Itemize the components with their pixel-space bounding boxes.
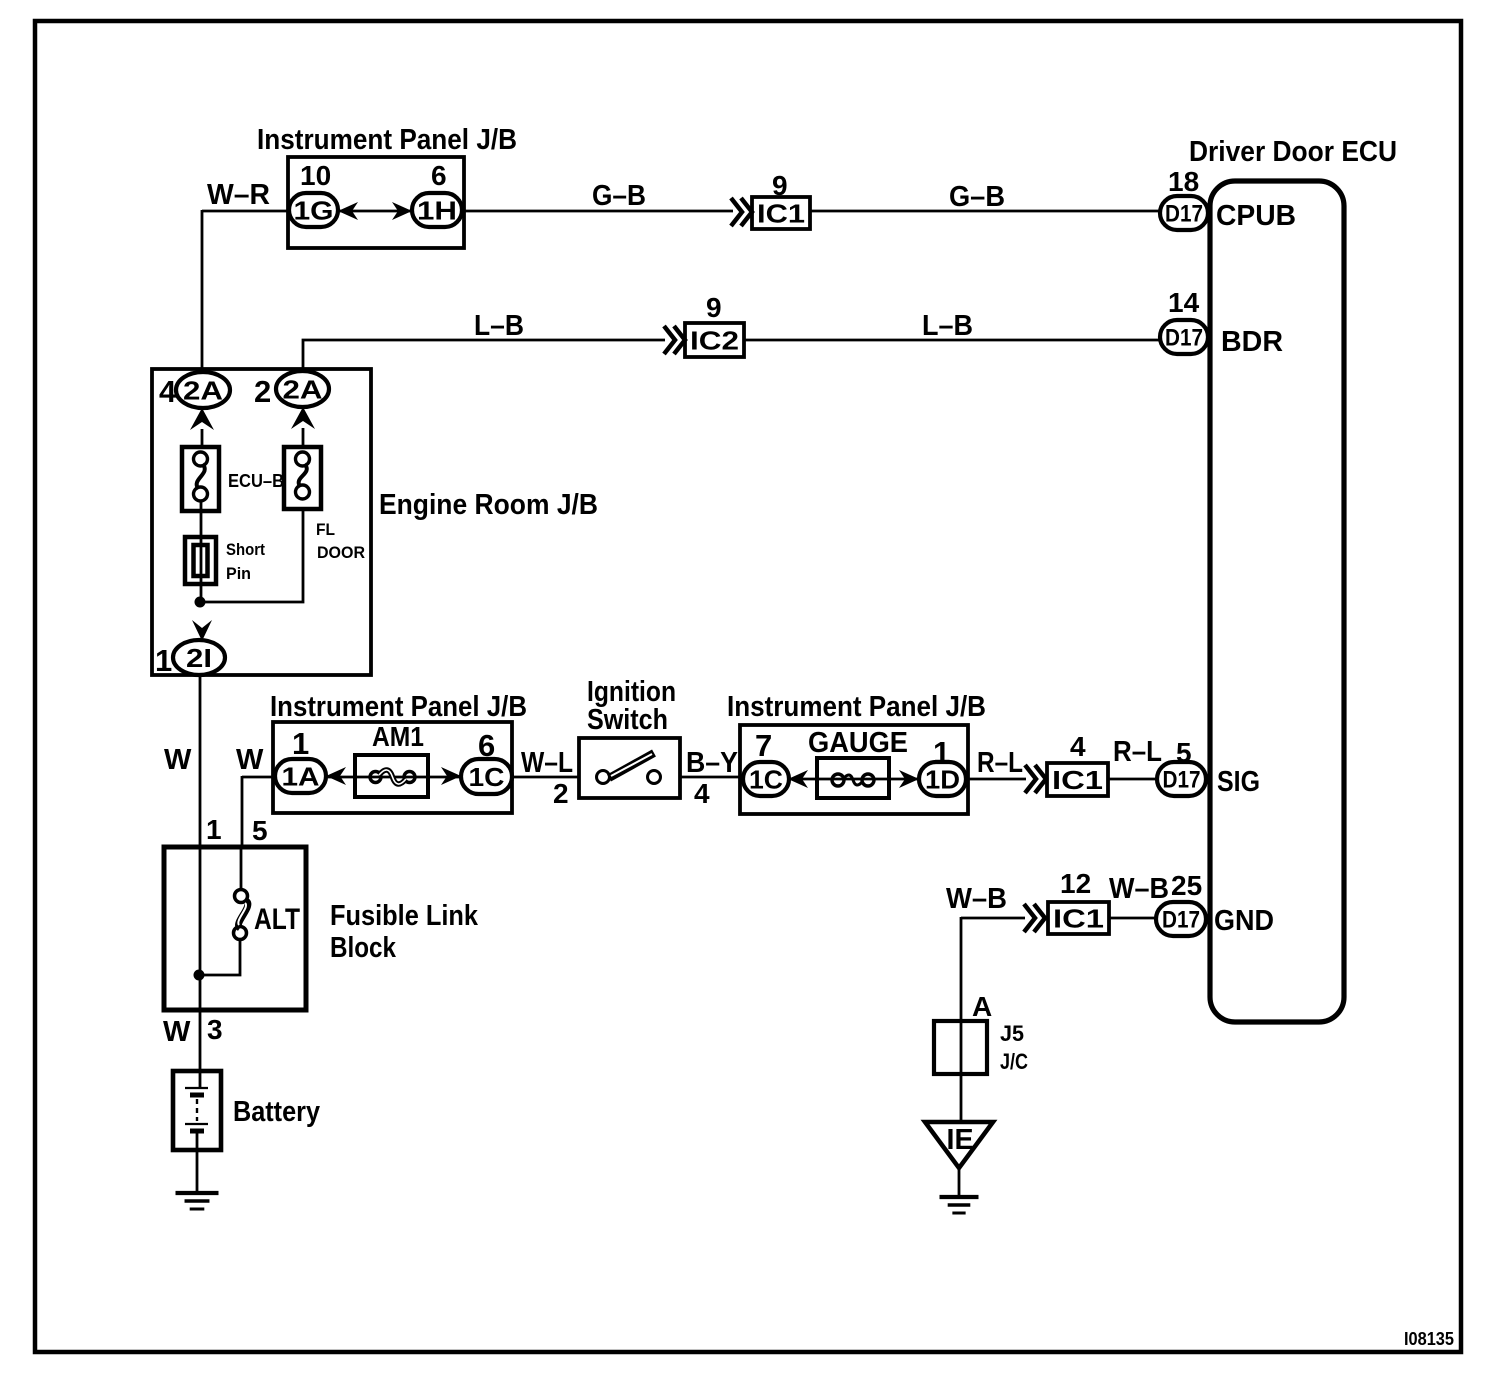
svg-text:10: 10 — [300, 160, 331, 191]
svg-text:18: 18 — [1168, 166, 1199, 197]
svg-text:DOOR: DOOR — [317, 543, 365, 562]
svg-text:G–B: G–B — [592, 180, 646, 212]
svg-text:D17: D17 — [1165, 201, 1203, 228]
svg-text:IC2: IC2 — [690, 326, 739, 356]
svg-text:1C: 1C — [469, 762, 505, 792]
svg-text:D17: D17 — [1162, 907, 1200, 934]
svg-text:GND: GND — [1214, 905, 1274, 937]
svg-text:L–B: L–B — [474, 310, 524, 342]
svg-text:9: 9 — [772, 170, 788, 201]
svg-text:25: 25 — [1171, 870, 1202, 901]
svg-text:I08135: I08135 — [1404, 1329, 1454, 1349]
svg-text:CPUB: CPUB — [1216, 200, 1296, 232]
svg-text:D17: D17 — [1163, 767, 1201, 794]
svg-text:Short: Short — [226, 540, 265, 559]
svg-text:A: A — [972, 991, 992, 1022]
svg-text:14: 14 — [1168, 287, 1200, 318]
svg-text:J/C: J/C — [1000, 1049, 1028, 1074]
svg-text:1: 1 — [206, 814, 222, 845]
svg-text:W: W — [163, 1016, 191, 1048]
svg-text:1G: 1G — [294, 195, 334, 225]
svg-text:W: W — [164, 744, 192, 776]
svg-text:AM1: AM1 — [372, 721, 424, 752]
svg-text:Fusible Link: Fusible Link — [330, 900, 479, 932]
svg-text:W: W — [236, 744, 264, 776]
svg-text:5: 5 — [252, 815, 268, 846]
svg-text:Engine Room J/B: Engine Room J/B — [379, 489, 598, 521]
svg-text:Driver Door ECU: Driver Door ECU — [1189, 136, 1397, 168]
svg-text:B–Y: B–Y — [686, 747, 738, 779]
svg-text:L–B: L–B — [922, 310, 973, 342]
svg-text:G–B: G–B — [949, 181, 1005, 213]
svg-text:W–R: W–R — [207, 179, 270, 211]
svg-text:1D: 1D — [925, 764, 960, 794]
svg-text:4: 4 — [1070, 731, 1086, 762]
svg-text:4: 4 — [694, 778, 710, 809]
svg-text:2A: 2A — [283, 374, 323, 404]
svg-text:W–B: W–B — [946, 883, 1007, 915]
svg-text:2: 2 — [553, 778, 569, 809]
svg-text:ALT: ALT — [254, 903, 300, 936]
svg-text:Switch: Switch — [587, 704, 668, 736]
svg-text:W–B: W–B — [1109, 873, 1169, 905]
svg-text:R–L: R–L — [1113, 736, 1162, 768]
svg-text:BDR: BDR — [1221, 326, 1283, 358]
svg-text:J5: J5 — [1000, 1021, 1024, 1046]
svg-text:IE: IE — [947, 1124, 974, 1156]
svg-text:D17: D17 — [1165, 325, 1203, 352]
svg-text:12: 12 — [1060, 868, 1091, 899]
svg-text:9: 9 — [706, 292, 722, 323]
svg-text:Instrument Panel J/B: Instrument Panel J/B — [257, 124, 517, 156]
svg-text:Instrument Panel J/B: Instrument Panel J/B — [727, 691, 986, 723]
svg-text:1: 1 — [292, 726, 309, 761]
svg-text:7: 7 — [755, 728, 772, 763]
svg-text:6: 6 — [431, 160, 447, 191]
svg-text:2: 2 — [254, 374, 271, 409]
svg-text:Instrument Panel J/B: Instrument Panel J/B — [270, 691, 527, 723]
svg-text:IC1: IC1 — [1052, 765, 1103, 795]
svg-text:W–L: W–L — [521, 747, 573, 779]
svg-text:1H: 1H — [417, 195, 457, 225]
svg-text:IC1: IC1 — [757, 199, 805, 229]
svg-text:SIG: SIG — [1217, 766, 1260, 798]
svg-text:1C: 1C — [749, 764, 783, 794]
svg-text:2A: 2A — [183, 375, 223, 405]
svg-text:GAUGE: GAUGE — [808, 727, 908, 759]
svg-text:Battery: Battery — [233, 1096, 320, 1128]
svg-text:1A: 1A — [282, 761, 320, 791]
svg-text:IC1: IC1 — [1053, 904, 1104, 934]
svg-text:1: 1 — [155, 643, 172, 678]
svg-text:R–L: R–L — [977, 747, 1023, 779]
svg-text:3: 3 — [207, 1014, 223, 1045]
svg-text:2I: 2I — [186, 643, 212, 673]
svg-text:Block: Block — [330, 932, 397, 964]
svg-text:ECU–B: ECU–B — [228, 471, 284, 491]
svg-text:Pin: Pin — [226, 564, 251, 583]
svg-text:FL: FL — [316, 520, 335, 539]
